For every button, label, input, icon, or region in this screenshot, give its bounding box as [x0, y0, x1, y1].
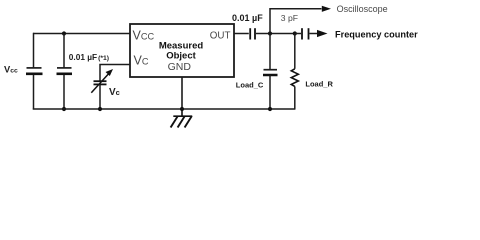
capacitor C3 0.01uF (series)	[250, 28, 255, 39]
wire: bottom rail	[33, 108, 295, 110]
wire: C3 to Load_R node	[256, 33, 295, 35]
wire: Load_C upper lead	[269, 34, 271, 70]
capacitor C2 0.01uF	[57, 68, 73, 74]
svg-text:Frequency counter: Frequency counter	[335, 30, 418, 40]
wire: C4 to frequency counter arrow	[310, 33, 319, 35]
svg-text:Oscilloscope: Oscilloscope	[337, 4, 388, 14]
measured object U1 (box)	[130, 24, 234, 77]
svg-text:OUT: OUT	[210, 31, 231, 42]
wire: oscilloscope branch	[270, 9, 322, 34]
svg-text:Load_R: Load_R	[305, 80, 333, 89]
wire: Load_R lower lead	[294, 86, 296, 109]
arrow to oscilloscope	[322, 6, 331, 12]
svg-text:VCC: VCC	[133, 29, 155, 43]
wire: variable capacitor lower lead	[99, 85, 101, 110]
svg-text:GND: GND	[168, 61, 192, 73]
svg-text:Load_C: Load_C	[236, 80, 264, 89]
capacitor C1 (Vcc bypass)	[26, 68, 43, 74]
wire: Load_R node to C4	[295, 33, 301, 35]
node: junction VC1 / bottom rail	[98, 107, 102, 111]
capacitor C4 3pF (series)	[302, 28, 309, 39]
wire: Load_C lower lead	[269, 76, 271, 110]
svg-text:VC: VC	[134, 53, 149, 67]
wire: Load_R upper lead	[294, 34, 296, 69]
svg-text:Object: Object	[166, 50, 196, 61]
node: junction GND / bottom rail	[180, 107, 184, 111]
wire: Vc pin elbow (box to variable capacitor)	[100, 65, 130, 81]
svg-text:Vc: Vc	[109, 87, 120, 98]
wire: OUT pin to C3	[234, 33, 249, 35]
node: junction C2 / bottom rail	[62, 107, 66, 111]
wire: C2 lower lead	[63, 75, 65, 110]
arrow to frequency counter	[317, 30, 328, 37]
resistor Load_R	[291, 69, 298, 87]
node: junction output / oscilloscope / Load_C	[268, 31, 272, 35]
variable capacitor VC1	[91, 69, 113, 93]
node: junction top rail / C2	[62, 31, 66, 35]
ground (earth) symbol	[171, 109, 193, 128]
wire: top rail Vcc to box VCC pin	[33, 33, 130, 35]
capacitor Load_C	[263, 70, 278, 75]
node: junction Load_C / bottom rail	[268, 107, 272, 111]
wire: left vertical lower (C1 to bottom rail)	[33, 75, 35, 110]
wire: C2 upper lead	[63, 34, 65, 68]
svg-text:3 pF: 3 pF	[281, 13, 298, 23]
svg-text:0.01 µF: 0.01 µF	[232, 13, 263, 23]
wire: GND pin to bottom rail	[181, 77, 183, 110]
node: junction Load_R	[293, 31, 297, 35]
wire: left vertical upper (to C1 top plate)	[33, 33, 35, 68]
